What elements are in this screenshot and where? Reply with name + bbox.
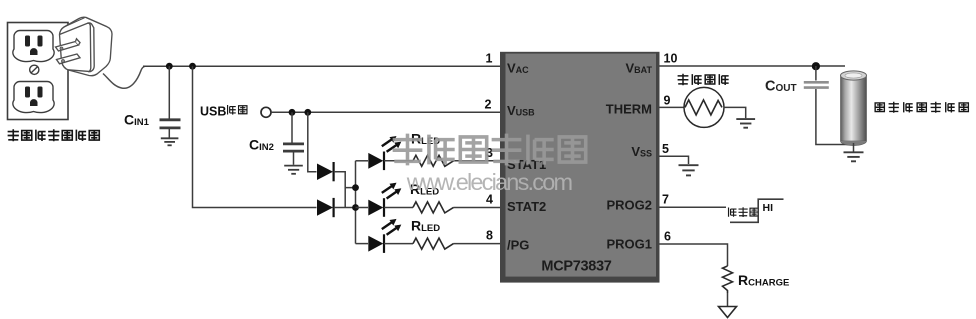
resistor RLED (row1) (413, 155, 454, 166)
wire (384, 243, 413, 245)
node junction bus-diodes (352, 184, 359, 191)
plug body (3D line art) (60, 17, 113, 76)
AC adapter plug body (56, 17, 113, 76)
svg-text:THERM: THERM (606, 102, 652, 117)
wire: LED bus (355, 161, 357, 244)
wire: VBAT to battery (660, 65, 846, 67)
wire thermistor to ground (724, 107, 746, 118)
ground (VSS) (679, 165, 699, 175)
wire pin 5 (VSS) (660, 156, 689, 164)
diode D2 (317, 198, 334, 217)
svg-text:USB: USB (200, 105, 226, 119)
ground (battery) (844, 152, 864, 161)
svg-text:9: 9 (664, 94, 671, 108)
node junction on VAC line (branch) (189, 63, 196, 70)
wire to pin 8 (454, 243, 502, 245)
wire: branch from VAC down to diode D2 (193, 66, 317, 207)
IC pin labels left (507, 61, 546, 253)
ground (CIN2) (284, 166, 303, 174)
svg-text:8: 8 (486, 229, 493, 243)
wire to pin 4 (454, 207, 502, 209)
svg-text:5: 5 (662, 142, 669, 156)
capacitor COUT (804, 66, 853, 145)
svg-text:PROG1: PROG1 (606, 237, 652, 252)
node: USB open terminal (261, 107, 271, 117)
label 墙式稳压适配器 (8, 129, 100, 141)
wire row2 (356, 207, 369, 209)
resistor RLED (row3) (413, 238, 454, 249)
capacitor CIN2 (283, 112, 304, 165)
outlet socket top (13, 30, 54, 61)
wire: adapter cord (103, 66, 145, 88)
logic waveform low-to-HI (730, 199, 784, 222)
wire row3 (356, 243, 369, 245)
svg-text:1: 1 (486, 52, 493, 66)
wire pin 7 (PROG2) (660, 206, 727, 208)
plug prong lower (57, 54, 81, 64)
resistor RCHARGE (723, 266, 733, 293)
ground (CIN1) (161, 138, 179, 145)
svg-text:MCP73837: MCP73837 (541, 259, 611, 275)
svg-text:CIN2: CIN2 (249, 137, 274, 154)
svg-text:STAT2: STAT2 (507, 199, 546, 214)
node junction bus-LED2 (352, 204, 359, 211)
svg-text:7: 7 (662, 193, 669, 207)
label 低电平 (729, 207, 759, 217)
LED D3 (368, 136, 401, 170)
wire: VAC line to pin 1 (143, 65, 502, 67)
wire (384, 160, 413, 162)
outlet screw (30, 65, 39, 74)
resistor RLED (row2) (413, 202, 454, 213)
IC pin labels right (606, 61, 653, 252)
watermark 电子发烧友网 (393, 134, 586, 166)
svg-text:/PG: /PG (507, 238, 529, 253)
node junction COUT (812, 62, 820, 70)
LED D5 (368, 219, 401, 253)
svg-text:COUT: COUT (765, 79, 797, 95)
svg-text:www.elecians.com: www.elecians.com (406, 169, 573, 195)
wire to pin 3 (454, 160, 502, 162)
label 热敏电阻 (678, 74, 729, 86)
label USB端口 (200, 105, 247, 119)
svg-text:6: 6 (664, 230, 671, 244)
wall outlet plate (8, 23, 69, 120)
ground arrow (PROG1) (719, 307, 737, 318)
wire (384, 207, 413, 209)
node junction on VUSB line (CIN2) (289, 109, 296, 116)
plug prong upper (56, 42, 79, 52)
wire: diode cathode join (334, 172, 356, 208)
svg-text:PROG2: PROG2 (606, 198, 652, 213)
IC U1 MCP73837 (500, 52, 660, 283)
svg-text:HI: HI (763, 202, 774, 214)
svg-text:RLED: RLED (411, 218, 440, 235)
wire pin 9 to thermistor (660, 106, 685, 108)
svg-text:CIN1: CIN1 (124, 112, 150, 129)
LED D4 (368, 183, 401, 217)
label 单节锂离子电池 (875, 102, 968, 113)
wire pin 6 (PROG1) (660, 244, 728, 266)
wire (727, 293, 729, 306)
capacitor CIN1 (160, 66, 181, 137)
diode D1 (317, 162, 334, 181)
node junction on VUSB line (branch) (304, 109, 311, 116)
svg-text:10: 10 (664, 52, 678, 66)
svg-text:RCHARGE: RCHARGE (738, 272, 789, 289)
outlet socket bottom (13, 81, 54, 112)
node junction on VAC line (CIN1) (166, 63, 173, 70)
battery cell (841, 71, 867, 146)
wire: VUSB line to pin 2 (271, 111, 501, 113)
svg-text:2: 2 (485, 98, 492, 112)
thermistor (684, 87, 724, 127)
wire: branch from VUSB down to diode D1 (308, 112, 317, 171)
ground (thermistor) (736, 119, 755, 128)
wire row1 (356, 160, 369, 162)
wire battery to ground (853, 143, 855, 152)
wall outlet and AC adapter (8, 23, 69, 120)
